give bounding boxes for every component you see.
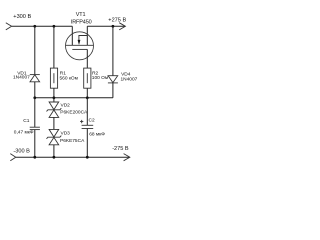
terminal +275 V output arrow	[119, 23, 125, 30]
wire: C1 bottom lead	[34, 130, 36, 158]
resistor R2 body	[84, 68, 91, 88]
node: junction dot top rail / R1	[53, 25, 56, 28]
wire: VD4 bottom lead to gate-node bus	[112, 83, 114, 98]
capacitor C2 plus polarity mark	[80, 120, 83, 123]
terminal -275 V output arrow	[124, 154, 130, 161]
resistor R1 power mark	[53, 73, 55, 83]
svg-text:1N4007: 1N4007	[121, 77, 138, 83]
wire: R1 bottom lead	[53, 88, 55, 98]
wire: VD3 bottom lead	[53, 145, 55, 157]
node: junction dot bottom rail / C2	[86, 156, 89, 159]
svg-text:P6KE200CA: P6KE200CA	[60, 110, 88, 116]
node: junction dot bottom rail / VD3	[53, 156, 56, 159]
wire: VT1 drain stub	[71, 26, 73, 45]
svg-text:R1: R1	[60, 70, 66, 76]
wire: R2 bottom lead to gate-node bus	[86, 88, 88, 98]
svg-text:68 мкФ: 68 мкФ	[89, 132, 105, 138]
wire: VT1 gate lead down to R2	[86, 49, 88, 68]
svg-text:100 Ом: 100 Ом	[92, 75, 108, 81]
svg-text:1N4007: 1N4007	[13, 75, 30, 81]
node: junction dot output rail / VD4	[112, 25, 115, 28]
TVS VD2 upper triangle	[49, 102, 59, 110]
node: junction dot bottom rail / C1	[33, 156, 36, 159]
diode VD1 triangle	[30, 75, 40, 82]
wire: VD1 top lead	[34, 26, 36, 74]
capacitor C2 bottom plate	[82, 128, 94, 130]
capacitor C1 bottom plate	[30, 129, 40, 131]
diode VD4 triangle	[108, 76, 118, 83]
transistor VT1 circle envelope	[66, 32, 94, 60]
svg-text:C2: C2	[89, 118, 95, 124]
node: junction dot bus / R2-C2	[86, 96, 89, 99]
TVS VD2 lower triangle	[49, 110, 59, 117]
TVS VD3 upper triangle	[49, 129, 59, 137]
svg-text:IRFP450: IRFP450	[71, 20, 92, 26]
TVS VD3 middle bar with zener ticks	[47, 136, 62, 139]
transistor VT1 substrate tie to source	[79, 36, 87, 41]
transistor VT1 substrate arrow	[78, 40, 81, 45]
wire: VD2 to VD3 link	[53, 117, 55, 129]
wire: C2 top lead	[86, 98, 88, 126]
wire: bottom rail common negative	[16, 156, 130, 158]
wire: VD2 top lead	[53, 98, 55, 102]
wire: output rail to +275 V	[87, 25, 125, 27]
wire: gate node bus	[35, 97, 113, 99]
terminal -300 V input chevron	[10, 154, 16, 161]
node: junction dot bus / VD1-C1	[33, 96, 36, 99]
terminal +300 V input chevron	[6, 23, 12, 30]
TVS VD3 lower triangle	[49, 137, 59, 144]
resistor R2 power mark	[86, 73, 88, 83]
diode VD4 cathode bar	[108, 82, 118, 84]
wire: top rail from +300 V input to VT1 drain	[12, 25, 73, 27]
wire: C1 top lead	[34, 98, 36, 127]
wire: VT1 source stub	[86, 26, 88, 45]
capacitor C2 top plate	[82, 124, 94, 126]
node: junction dot bus / R1-VD2	[53, 96, 56, 99]
svg-text:+275 В: +275 В	[108, 18, 126, 24]
node: junction dot top rail / VD1	[33, 25, 36, 28]
wire: VD1 bottom lead	[34, 82, 36, 98]
svg-text:C1: C1	[23, 118, 29, 124]
wire: VD4 top lead	[112, 26, 114, 75]
svg-text:+300 В: +300 В	[13, 14, 31, 20]
diode VD1 cathode bar	[30, 74, 40, 76]
wire: C2 bottom lead	[86, 129, 88, 158]
svg-text:P6KE75CA: P6KE75CA	[60, 138, 85, 144]
svg-text:VD2: VD2	[61, 102, 71, 108]
resistor R1 body	[50, 68, 57, 88]
transistor VT1 channel line	[66, 44, 94, 46]
svg-text:VT1: VT1	[76, 12, 86, 18]
svg-text:-300 В: -300 В	[13, 149, 30, 155]
svg-text:VD3: VD3	[61, 131, 71, 137]
wire: R1 top lead	[53, 26, 55, 68]
transistor VT1 gate electrode	[72, 48, 87, 50]
svg-text:0,47 мкФ: 0,47 мкФ	[14, 130, 34, 136]
svg-text:560 кОм: 560 кОм	[60, 75, 78, 81]
capacitor C1 top plate	[30, 126, 40, 128]
svg-text:-275 В: -275 В	[112, 146, 129, 152]
TVS VD2 middle bar with zener ticks	[47, 108, 62, 111]
